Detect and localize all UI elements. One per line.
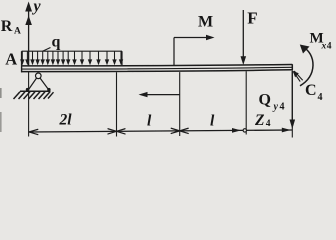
svg-text:4: 4 <box>280 102 285 113</box>
svg-text:C: C <box>305 82 317 99</box>
svg-text:Z: Z <box>254 112 265 129</box>
svg-text:F: F <box>247 9 257 28</box>
svg-text:4: 4 <box>327 42 332 52</box>
svg-text:x: x <box>321 42 327 52</box>
svg-text:A: A <box>5 50 17 69</box>
svg-text:4: 4 <box>266 119 271 129</box>
svg-text:Q: Q <box>259 92 271 109</box>
svg-text:4: 4 <box>318 92 323 103</box>
svg-text:q: q <box>52 34 61 51</box>
svg-text:A: A <box>14 27 21 37</box>
svg-text:y: y <box>32 0 42 15</box>
svg-text:R: R <box>1 18 13 35</box>
svg-text:2l: 2l <box>59 112 73 129</box>
svg-text:l: l <box>147 113 152 130</box>
svg-text:l: l <box>210 113 215 130</box>
svg-text:M: M <box>198 14 213 31</box>
svg-text:y: y <box>273 102 279 113</box>
